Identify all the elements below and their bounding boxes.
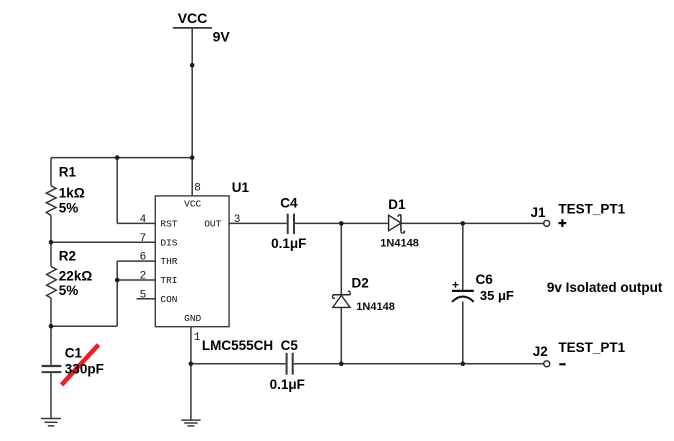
svg-text:2: 2	[140, 271, 147, 283]
svg-text:C5: C5	[281, 338, 299, 353]
svg-text:OUT: OUT	[204, 219, 221, 230]
svg-text:6: 6	[140, 252, 147, 264]
svg-text:5: 5	[140, 289, 147, 301]
svg-text:RST: RST	[160, 219, 177, 230]
svg-text:7: 7	[140, 233, 147, 245]
svg-text:5%: 5%	[59, 283, 79, 298]
svg-text:R1: R1	[59, 164, 77, 179]
svg-text:8: 8	[194, 183, 201, 195]
svg-text:LMC555CH: LMC555CH	[202, 338, 273, 353]
svg-text:1N4148: 1N4148	[356, 301, 395, 313]
svg-text:VCC: VCC	[178, 10, 208, 26]
svg-text:THR: THR	[160, 256, 177, 267]
svg-text:5%: 5%	[59, 200, 79, 215]
svg-text:1: 1	[194, 332, 201, 344]
svg-text:22kΩ: 22kΩ	[59, 269, 93, 284]
svg-text:D2: D2	[352, 276, 369, 291]
svg-text:TEST_PT1: TEST_PT1	[558, 202, 625, 217]
svg-text:D1: D1	[388, 197, 406, 212]
svg-text:0.1μF: 0.1μF	[271, 236, 306, 251]
svg-text:DIS: DIS	[160, 237, 177, 248]
svg-text:VCC: VCC	[184, 199, 201, 210]
svg-text:9V: 9V	[213, 29, 231, 45]
svg-text:J2: J2	[533, 344, 548, 359]
svg-text:0.1μF: 0.1μF	[270, 377, 305, 392]
svg-text:C1: C1	[65, 345, 83, 360]
svg-text:C6: C6	[476, 272, 494, 287]
svg-text:3: 3	[234, 214, 241, 226]
svg-text:1N4148: 1N4148	[380, 238, 419, 250]
svg-text:TEST_PT1: TEST_PT1	[558, 340, 625, 355]
svg-text:330pF: 330pF	[65, 361, 104, 376]
svg-text:1kΩ: 1kΩ	[59, 186, 85, 201]
svg-text:GND: GND	[184, 313, 201, 324]
svg-text:C4: C4	[280, 196, 298, 211]
svg-text:35 μF: 35 μF	[480, 288, 514, 303]
svg-text:TRI: TRI	[160, 275, 177, 286]
svg-text:U1: U1	[232, 180, 250, 195]
svg-text:J1: J1	[531, 205, 547, 220]
svg-text:CON: CON	[160, 294, 177, 305]
svg-text:9v Isolated output: 9v Isolated output	[547, 280, 663, 295]
svg-text:R2: R2	[59, 249, 76, 264]
svg-text:4: 4	[140, 214, 147, 226]
